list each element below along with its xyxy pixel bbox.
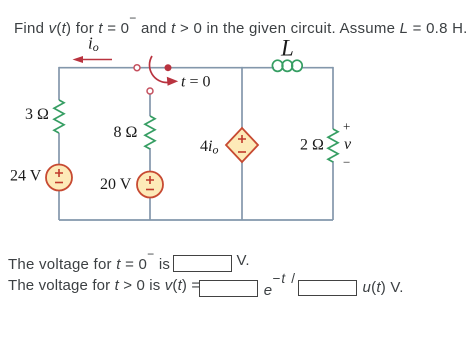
svg-text:8 Ω: 8 Ω — [114, 124, 138, 141]
svg-text:io: io — [88, 34, 99, 55]
svg-text:20 V: 20 V — [100, 176, 132, 193]
svg-text:t = 0: t = 0 — [181, 73, 210, 90]
svg-text:3 Ω: 3 Ω — [25, 106, 49, 123]
svg-text:+: + — [343, 119, 350, 134]
svg-text:24 V: 24 V — [10, 168, 42, 185]
svg-text:4io: 4io — [200, 138, 218, 157]
svg-text:−: − — [343, 155, 350, 170]
svg-text:L: L — [280, 36, 294, 61]
svg-text:v: v — [344, 136, 352, 153]
svg-text:2 Ω: 2 Ω — [300, 137, 324, 154]
